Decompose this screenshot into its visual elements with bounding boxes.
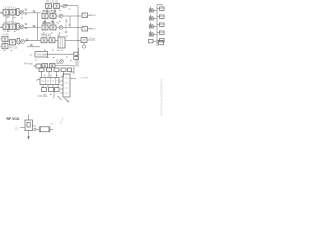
tuned amplifier stage A1 [1,6,42,18]
arrow to AF output [65,98,69,102]
scattered component micro-marks [4,4,72,95]
wire inter-stage verticals [45,9,55,26]
amplifier stage C3 [42,22,63,30]
svg-text:IF out: IF out [90,37,96,40]
svg-text:ANT: ANT [92,28,97,31]
row of decoupling parts E-top [39,68,72,78]
svg-text:L1 C4 T2: L1 C4 T2 [4,21,15,24]
svg-text:R14 C21: R14 C21 [41,33,51,36]
svg-text:ANT: ANT [92,14,97,17]
output connector D2 [82,27,97,32]
right element D3 [157,23,164,26]
right element D2 [157,15,164,18]
svg-text:R4 C10: R4 C10 [10,48,19,50]
svg-text:C33 R11: C33 R11 [38,95,48,98]
crystal Y1 [36,124,53,133]
tuned amplifier stage A2 [1,21,42,33]
svg-text:X2: X2 [57,33,61,36]
svg-text:to SPKR: to SPKR [80,77,89,80]
right bus wire [157,5,162,47]
crystal filter stage C4 [41,34,81,48]
wire C3 output [63,27,82,29]
label between C2 C3 [42,22,59,25]
VXO oscillator C5 [35,48,79,67]
wire between A1 and A2 [6,13,38,40]
labels and wire below [38,92,62,100]
label RF VCO [7,117,20,121]
bottom ladder parts [149,39,164,44]
svg-text:C2: C2 [15,128,19,130]
left edge wires [0,13,3,28]
down arrow / ground [27,131,29,140]
transistor Q3 [57,59,63,64]
right element D5 [157,39,164,42]
label between C1 C2 [42,11,54,14]
svg-text:AF amp: AF amp [24,63,33,66]
row C6 components [24,63,74,69]
left tap R4 [149,31,157,37]
output connector D1 [82,13,97,18]
right element D1 [157,7,164,10]
svg-text:R5 C11 Q1: R5 C11 Q1 [46,0,59,3]
wire C2 output [63,16,82,28]
svg-text:T5: T5 [56,22,59,25]
svg-text:Y1: Y1 [50,124,53,126]
mixer D3 [81,37,95,48]
wire C1 output to bus [65,6,79,67]
svg-text:C16 R8: C16 R8 [42,22,51,25]
IC U2 multi-section [37,78,59,85]
pins and parts below U2 [42,85,60,92]
amplifier stage C2 [42,10,63,18]
bandpass stage B [1,34,42,49]
svg-text:Schaltbild QRP RX 9MHz SSB: Schaltbild QRP RX 9MHz SSB [160,79,164,116]
svg-text:L1 C4 T2: L1 C4 T2 [4,6,15,9]
label below C3 [41,33,61,36]
svg-text:RF VCO: RF VCO [7,117,20,121]
left tap R1 [149,7,157,13]
left tap R3 [149,23,157,29]
label right of U3 [80,77,89,80]
right element D4 [157,31,164,34]
IC U3 vertical [60,68,76,97]
svg-text:VXO 9MHz: VXO 9MHz [37,54,50,57]
amplifier stage C1 [46,0,67,8]
svg-text:L7 C13 T3: L7 C13 T3 [42,11,54,14]
small squiggle mark [61,118,63,124]
VCO tank circuit [15,115,36,131]
faint vertical caption [160,79,164,116]
left tap R2 [149,15,157,21]
capacitor clutter mid rows [44,11,67,33]
svg-text:C5 R3: C5 R3 [4,16,11,18]
